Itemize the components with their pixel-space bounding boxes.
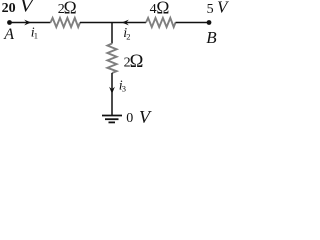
svg-text:Ω: Ω <box>130 52 144 72</box>
svg-text:0: 0 <box>126 111 133 126</box>
svg-text:A: A <box>3 26 14 43</box>
current arrow i3 <box>109 87 115 94</box>
wire R1 to R2 through junction <box>80 22 146 24</box>
svg-text:20: 20 <box>2 1 16 16</box>
wire junction down to R3 <box>111 22 113 44</box>
current arrow i2 <box>122 20 129 26</box>
svg-text:Ω: Ω <box>156 0 169 18</box>
svg-text:Ω: Ω <box>64 0 77 18</box>
svg-text:5: 5 <box>207 2 214 17</box>
node A <box>7 20 12 25</box>
node B <box>207 20 212 25</box>
ground <box>102 116 122 123</box>
resistor 4ohm <box>146 18 176 27</box>
wire A to R1 <box>10 22 51 24</box>
wire R3 to ground <box>111 73 113 115</box>
svg-text:B: B <box>206 28 217 47</box>
resistor 2ohm left <box>51 18 81 27</box>
current arrow i1 <box>24 20 31 26</box>
resistor 2ohm middle vertical <box>107 44 116 74</box>
wire R2 to B <box>176 22 210 24</box>
